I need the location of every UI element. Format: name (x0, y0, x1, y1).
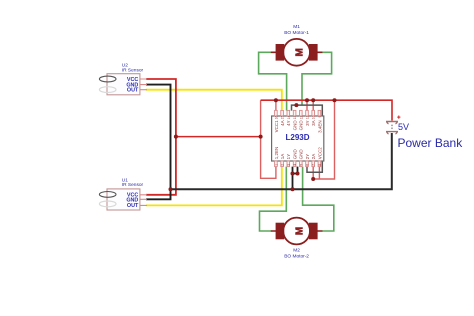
junction node: rail 3A (311, 98, 315, 102)
IR sensor U1 labels (122, 178, 144, 188)
svg-text:2: 2 (281, 164, 285, 166)
svg-text:3Y: 3Y (305, 120, 310, 126)
IC U3 top pin numbers (274, 115, 322, 119)
svg-text:BO Motor-1: BO Motor-1 (284, 30, 309, 36)
battery BT1 dotted cells (391, 125, 393, 130)
junction node: gnd pin4 (291, 172, 295, 176)
wire: red stub pin8 VCC2 (318, 167, 320, 179)
IC U3 bottom pin labels (274, 147, 323, 160)
IR sensor U2 lens ellipse light (99, 87, 116, 93)
svg-text:GND: GND (299, 149, 304, 160)
svg-text:2A: 2A (311, 154, 316, 160)
junction node: bus left (169, 187, 173, 191)
svg-text:GND: GND (299, 120, 304, 131)
svg-text:VCC1: VCC1 (274, 120, 279, 133)
wire: red stub VCC1 pin16 (275, 100, 277, 110)
svg-text:12: 12 (299, 115, 303, 119)
svg-text:10: 10 (312, 115, 316, 119)
svg-text:4Y: 4Y (286, 120, 291, 126)
svg-text:GND: GND (293, 120, 298, 131)
svg-text:15: 15 (281, 115, 285, 119)
IR sensor U1 lens ellipse light (99, 201, 116, 207)
svg-text:4: 4 (293, 164, 297, 166)
svg-text:M1: M1 (293, 24, 300, 30)
wire: black GND pins 4,5 to bus (293, 167, 298, 190)
wire: gray GND top loop to pin 2Y side (292, 105, 323, 172)
IR sensor U1 body (107, 189, 147, 210)
wire: red drop to 3Y (306, 100, 308, 110)
wire: red branch VCC to IC (176, 136, 261, 138)
svg-text:1Y: 1Y (286, 154, 291, 160)
wire: black U2 GND down to U1 GND (146, 85, 171, 200)
junction node: red branch at loop (259, 135, 263, 139)
svg-text:14: 14 (287, 115, 291, 119)
svg-text:13: 13 (293, 115, 297, 119)
wire: yellow U1 OUT to 1A (146, 167, 282, 206)
svg-text:8: 8 (318, 164, 322, 166)
svg-text:16: 16 (274, 115, 278, 119)
wire: green M1 right to 3Y (302, 52, 332, 105)
wire: red loop to pin 1,2EN (261, 100, 276, 178)
svg-text:1,2EN: 1,2EN (274, 147, 279, 160)
junction node: gnd pin5 (296, 172, 300, 176)
svg-text:4A: 4A (280, 120, 285, 126)
svg-text:5V: 5V (398, 122, 409, 132)
junction node: rail right loop (333, 98, 337, 102)
junction node: gnd at bus (291, 187, 295, 191)
svg-text:11: 11 (306, 115, 310, 119)
svg-text:1A: 1A (280, 154, 285, 160)
IR sensor U2 pin labels (126, 77, 139, 94)
svg-text:1: 1 (274, 164, 278, 166)
wire: green 1Y to M2 left (260, 167, 287, 231)
svg-text:9: 9 (318, 115, 322, 117)
svg-text:2Y: 2Y (305, 154, 310, 160)
wire: green 2Y to M2 right (303, 167, 334, 231)
junction node: rail pin16 (274, 98, 278, 102)
svg-text:Power Bank: Power Bank (398, 136, 464, 150)
IR sensor U1 lens ellipse dark (99, 192, 116, 198)
motor M2 (271, 218, 323, 245)
wire: red loop VCC2 to rail (313, 100, 334, 179)
wire: red 5V rail to battery (261, 100, 392, 120)
IR sensor U2 body (107, 74, 147, 95)
junction node: vcc2 loop (311, 177, 315, 181)
wire: red drop to 3A (312, 100, 314, 110)
motor M1 (271, 39, 323, 66)
battery BT1 plus mark (397, 116, 400, 119)
svg-text:3A: 3A (311, 120, 316, 126)
IC U3 pin stubs bottom (275, 161, 321, 167)
svg-text:GND: GND (293, 149, 298, 160)
svg-text:5: 5 (299, 164, 303, 166)
battery BT1 plates (386, 122, 398, 135)
svg-text:6: 6 (306, 164, 310, 166)
svg-text:3.4EN: 3.4EN (317, 120, 322, 133)
wire: yellow U2 OUT to 4A (146, 90, 282, 111)
IC U3 pin stubs top (275, 110, 321, 116)
svg-text:M2: M2 (293, 248, 300, 254)
IC U3 top pin labels (274, 120, 323, 133)
IR sensor U2 labels (122, 63, 144, 74)
IC U3 bottom pin numbers (274, 164, 322, 166)
svg-text:M: M (295, 227, 306, 235)
motor M1 labels (284, 24, 309, 36)
IR sensor U1 pin labels (126, 193, 139, 210)
IC U3 L293D body (272, 116, 324, 161)
svg-text:BO Motor-2: BO Motor-2 (284, 254, 309, 260)
junction node: rail 3Y (305, 98, 309, 102)
svg-text:7: 7 (312, 164, 316, 166)
wire: black ground bus to battery minus (171, 133, 392, 189)
svg-text:L293D: L293D (285, 133, 309, 142)
svg-text:OUT: OUT (127, 88, 139, 94)
svg-text:VCC2: VCC2 (317, 147, 322, 160)
junction node: gray line (294, 103, 298, 107)
wire: green M1 left to 4Y (259, 52, 287, 110)
wire: red U2 VCC down to U1 VCC (146, 79, 176, 195)
junction node: red vcc branch (174, 135, 178, 139)
svg-text:IR Sensor: IR Sensor (122, 68, 144, 74)
svg-text:IR Sensor: IR Sensor (122, 182, 144, 188)
svg-text:M: M (295, 48, 306, 56)
svg-text:3: 3 (287, 164, 291, 166)
IR sensor U2 lens ellipse dark (99, 76, 116, 82)
svg-text:OUT: OUT (127, 203, 139, 209)
motor M2 labels (284, 248, 309, 260)
